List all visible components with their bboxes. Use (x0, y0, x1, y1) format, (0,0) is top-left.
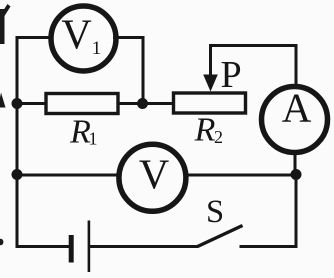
svg-text:1: 1 (92, 38, 102, 59)
wire: bottom left to battery (16, 245, 70, 248)
svg-text:V: V (61, 13, 91, 59)
svg-text:2: 2 (214, 127, 223, 147)
svg-text:A: A (282, 85, 312, 131)
cropped mark (bottom-left edge) (0, 239, 3, 245)
node: junction dot on right rail (291, 169, 302, 180)
resistor R1 (46, 94, 118, 114)
svg-text:P: P (221, 54, 242, 96)
wire: V1 left lead (16, 36, 54, 39)
node A label (cut off at left edge) (0, 93, 6, 108)
svg-text:R: R (194, 112, 216, 149)
rheostat R2 (174, 93, 246, 113)
switch S lever (198, 226, 243, 247)
wire: voltmeter V to right junction (184, 174, 296, 177)
R2 value label (194, 112, 223, 149)
cropped text fragment (top-left edge) (0, 4, 11, 44)
wire: R1 to R2 (118, 102, 174, 105)
node: junction dot between R1 and R2 (137, 98, 148, 109)
wire: left rail vertical (16, 38, 19, 249)
battery cell (69, 221, 91, 273)
svg-text:V: V (139, 153, 169, 199)
ammeter A (262, 87, 328, 153)
svg-text:S: S (206, 194, 224, 230)
wire: ammeter bottom lead (294, 150, 297, 176)
wire: right rail vertical (295, 175, 298, 249)
wire: left rail to voltmeter V (17, 174, 120, 177)
voltmeter V (119, 144, 186, 211)
wire: switch contact to right rail (240, 245, 298, 248)
R1 value label (69, 114, 97, 151)
wire: V1 right lead (113, 38, 143, 104)
node: junction dot on left rail (12, 169, 23, 180)
wire: A node to R1 (17, 102, 47, 105)
wiper arrow P of R2 (203, 44, 218, 92)
node: junction dot at A (12, 98, 23, 109)
voltmeter V1 (51, 6, 116, 71)
wire: battery to switch (90, 245, 198, 248)
wire: wiper to ammeter (211, 46, 297, 88)
svg-text:1: 1 (89, 129, 98, 149)
